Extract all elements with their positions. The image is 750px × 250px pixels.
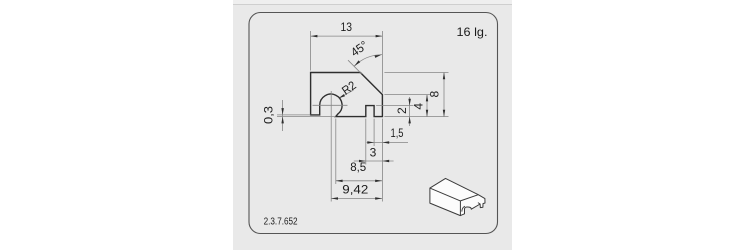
dimension 9,42 line <box>331 197 382 199</box>
dimension 4 line <box>426 95 428 117</box>
right extension line bottom <box>384 116 448 118</box>
extension line notch right down <box>373 119 375 146</box>
extension line channel lip down <box>335 119 337 184</box>
svg-text:4: 4 <box>412 103 426 110</box>
isometric part: top face left edge <box>430 188 461 201</box>
right extension line top (y=top) <box>384 72 448 74</box>
isometric part: front top edge <box>460 195 478 201</box>
right extension line notch top <box>376 105 413 107</box>
svg-text:13: 13 <box>341 20 353 34</box>
dimension 13 line <box>311 35 383 37</box>
svg-text:1,5: 1,5 <box>391 126 404 140</box>
isometric part: channel depth arc <box>462 206 465 212</box>
channel centerline horizontal <box>313 104 348 106</box>
chamfer extension line <box>348 60 362 74</box>
svg-text:9,42: 9,42 <box>342 183 368 197</box>
top hairline <box>233 0 512 4</box>
drawing panel border <box>249 13 498 234</box>
isometric part: silhouette <box>430 178 485 215</box>
dimension 8 line <box>443 73 445 117</box>
isometric part: notch groove depth edge <box>478 203 480 204</box>
isometric part: front left vertical edge <box>459 201 461 216</box>
R2 leader line <box>340 90 354 98</box>
extension line profile right down <box>381 119 383 202</box>
dimension 1,5 line <box>367 141 408 143</box>
svg-text:2.3.7.652: 2.3.7.652 <box>264 217 298 228</box>
profile cross-section outline <box>311 73 383 117</box>
45 degree arc <box>354 55 382 67</box>
dimension 2 line <box>409 97 411 126</box>
0,3 extension line upper <box>277 114 311 116</box>
svg-text:16 lg.: 16 lg. <box>457 25 488 39</box>
channel centerline vertical <box>330 91 332 202</box>
dimension 3 line <box>354 160 394 162</box>
dimension 8,5 line <box>336 180 382 182</box>
svg-text:8: 8 <box>428 91 442 98</box>
right extension line chamfer level <box>384 94 431 96</box>
page gray background block <box>233 0 512 250</box>
svg-text:3: 3 <box>370 145 377 159</box>
svg-text:2: 2 <box>395 107 409 114</box>
extension line notch left down <box>365 119 367 165</box>
svg-text:0,3: 0,3 <box>262 106 276 124</box>
0,3 extension line lower (bottom level) <box>277 116 336 118</box>
svg-text:8,5: 8,5 <box>350 160 366 174</box>
dimension 0,3 line <box>282 100 284 131</box>
dimension 13 extension lines <box>310 31 312 71</box>
